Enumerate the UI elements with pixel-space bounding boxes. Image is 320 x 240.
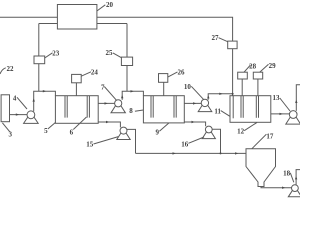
arrow on tank5/6 bottom line xyxy=(106,121,109,123)
svg-text:20: 20 xyxy=(106,1,114,9)
junction dot box27 line / pump10 header xyxy=(232,93,234,95)
box 25 xyxy=(121,57,132,65)
svg-text:23: 23 xyxy=(52,49,60,57)
dip pipe pair from box 28 xyxy=(240,96,242,118)
arrow up on pump4 riser xyxy=(33,98,35,101)
box 23 xyxy=(34,56,45,64)
box 24 xyxy=(72,74,82,82)
wire: box 24 dosing line into tank 5/6 xyxy=(75,83,77,96)
label 9 leader xyxy=(159,123,169,131)
svg-text:24: 24 xyxy=(91,68,99,76)
wire: pump 4 riser and header into tank 5 xyxy=(34,91,56,111)
label 10 leader xyxy=(191,86,204,99)
arrow on tank3 outlet xyxy=(16,113,19,115)
wire: pump 10 riser and header into tank 11 xyxy=(208,94,232,100)
pump 15 xyxy=(117,129,130,140)
wire: tank 11/12 outlet to pump 13 xyxy=(271,113,290,115)
wire: sludge main line to hopper 17 xyxy=(136,152,247,154)
svg-text:10: 10 xyxy=(184,83,192,91)
box 20 xyxy=(57,5,97,30)
label 29 leader xyxy=(260,64,269,72)
pump 10 xyxy=(198,101,212,112)
wire: tank 5/6 outlet to pump 7 xyxy=(98,102,114,104)
svg-text:25: 25 xyxy=(106,49,114,57)
svg-text:27: 27 xyxy=(212,34,220,42)
arrow on hopper outlet xyxy=(282,187,285,189)
label 8 leader xyxy=(135,110,143,111)
arrow on sludge line (left) xyxy=(173,152,176,154)
tank 8/9 xyxy=(143,96,184,123)
dip pipe pair in tank 6 xyxy=(86,96,88,118)
wire: tank 8/9 outlet to pump 10 xyxy=(184,102,201,104)
label 25 leader xyxy=(113,53,122,58)
arrow right on tank5 header xyxy=(43,90,46,92)
svg-text:6: 6 xyxy=(70,128,74,136)
wire: pump 15 outlet down to sludge line xyxy=(127,129,136,153)
wire: pump 13 riser to right edge xyxy=(296,85,300,111)
box 29 xyxy=(253,72,262,79)
arrow on tank11/12 outlet xyxy=(280,113,283,115)
wire: drop below box 27 to tank 11 top xyxy=(232,49,234,96)
svg-text:12: 12 xyxy=(237,128,245,136)
wire: hopper outlet to pump 18 xyxy=(261,187,292,188)
inlet dip pipe in tank 11 xyxy=(232,96,234,119)
wire: drop through box 25 to pump7 header xyxy=(126,24,128,92)
svg-text:17: 17 xyxy=(266,132,274,140)
label 17 leader xyxy=(252,134,267,149)
svg-text:28: 28 xyxy=(249,63,257,71)
label 11 leader xyxy=(221,111,230,117)
svg-text:18: 18 xyxy=(283,169,291,177)
wire: line behind box 20 from box23 drop to box25 drop xyxy=(39,23,127,25)
svg-text:16: 16 xyxy=(181,141,189,149)
label 15 leader xyxy=(94,137,119,144)
label 18 leader xyxy=(290,173,294,183)
pump 7 xyxy=(111,102,125,113)
box 27 xyxy=(228,41,237,49)
wire: tank 3 outlet to pump 4 xyxy=(10,114,28,116)
arrow right on tank11 header xyxy=(219,93,222,95)
svg-text:4: 4 xyxy=(13,94,17,102)
label 12 leader xyxy=(244,122,257,130)
svg-text:29: 29 xyxy=(269,62,277,70)
arrow right on tank8 header xyxy=(131,90,134,92)
arrow up on pump10 riser xyxy=(207,95,209,98)
svg-text:26: 26 xyxy=(178,68,186,76)
arrow on tank8/9 bottom line xyxy=(192,121,195,123)
pump 16 xyxy=(202,128,215,138)
arrow on tank8/9 outlet xyxy=(193,102,196,104)
wire: pump 7 riser and header into tank 8 xyxy=(122,91,143,100)
box 28 xyxy=(238,72,248,79)
label 7 leader xyxy=(104,87,116,101)
arrow up on pump13 riser xyxy=(295,100,297,103)
svg-text:22: 22 xyxy=(7,65,15,73)
svg-text:11: 11 xyxy=(214,107,221,115)
arrow on tank5/6 outlet xyxy=(105,102,108,104)
label 3 leader xyxy=(2,123,9,132)
svg-text:13: 13 xyxy=(273,94,281,102)
hopper 17 xyxy=(246,149,276,187)
wire: main feed line into box 20 and long top line to box 27 drop xyxy=(0,17,233,41)
label 20 leader xyxy=(97,5,105,11)
svg-text:3: 3 xyxy=(8,130,12,138)
dip pipe pair in tank 5 xyxy=(64,96,66,118)
svg-text:7: 7 xyxy=(101,83,105,91)
label 22 leader (curved to left edge) xyxy=(0,68,6,74)
label 26 leader xyxy=(168,72,178,77)
wire: box 28 dosing line into tank 11/12 xyxy=(241,79,243,96)
tank 3 xyxy=(1,95,9,122)
wire: box 26 dosing line into tank 8/9 xyxy=(163,82,165,95)
arrow up on pump7 riser xyxy=(121,95,123,98)
arrow on sludge line (right) xyxy=(235,152,238,154)
label 5 leader xyxy=(48,123,56,130)
label 28 leader xyxy=(244,65,251,72)
label 24 leader xyxy=(81,72,91,76)
arrow up on pump18 riser xyxy=(295,176,297,179)
svg-text:5: 5 xyxy=(44,127,48,135)
pump 4 xyxy=(24,113,39,124)
pump 18 xyxy=(288,187,301,197)
label 6 leader xyxy=(73,117,86,130)
pump 13 xyxy=(286,113,301,125)
tank 11/12 xyxy=(230,96,271,123)
svg-text:9: 9 xyxy=(156,129,160,137)
wire: box 29 dosing line into tank 11/12 xyxy=(257,79,259,96)
label 23 leader xyxy=(45,53,53,58)
label 16 leader xyxy=(188,137,204,143)
label 13 leader xyxy=(280,98,290,111)
svg-text:15: 15 xyxy=(86,141,94,149)
dip pipe pair from box 29 xyxy=(255,96,257,118)
dip pipe pair in tank 9 xyxy=(173,96,175,118)
wire: pump 16 outlet down to sludge line xyxy=(212,129,220,153)
wire: tank 8/9 bottom line to pump 16 xyxy=(184,122,205,126)
svg-text:8: 8 xyxy=(129,107,133,115)
label 4 leader xyxy=(17,97,27,109)
wire: drop through box 23 to tank 5 header xyxy=(38,24,40,92)
junction dot pump16 outlet / sludge line xyxy=(220,152,222,154)
tank 5/6 xyxy=(55,96,98,124)
wire: tank 5/6 bottom line to pump 15 xyxy=(98,122,120,127)
box 26 xyxy=(159,74,168,83)
label 27 leader xyxy=(219,38,228,42)
dip pipe pair in tank 8 xyxy=(150,96,152,118)
wire: pump 18 riser to right edge xyxy=(296,170,300,185)
